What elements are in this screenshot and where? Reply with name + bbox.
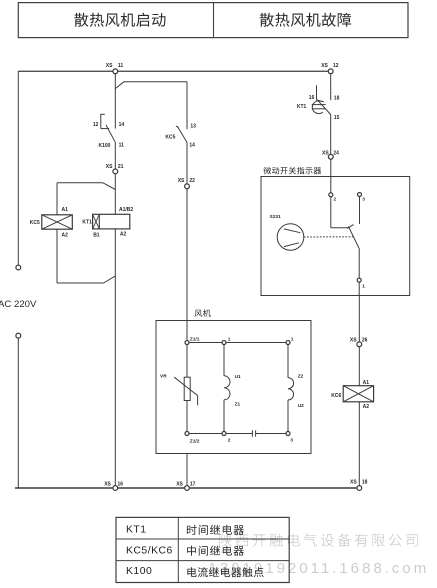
svg-text:2: 2: [334, 196, 337, 202]
mechanical link dashed: [304, 236, 354, 238]
node XS-26: [357, 342, 362, 347]
svg-text:3: 3: [362, 196, 365, 202]
node XS-16: [113, 486, 118, 491]
wire XS21 to KT1 coil: [114, 174, 116, 215]
svg-text:1: 1: [228, 337, 231, 343]
wire XS12 to KT1 contact: [330, 73, 332, 100]
contact KC5 blade: [176, 126, 187, 143]
wire switch horizontal: [331, 227, 348, 229]
svg-text:12: 12: [333, 63, 339, 69]
node XS-17: [185, 486, 190, 491]
wire tap horizontal: [124, 81, 187, 83]
wire XS11 to K100: [114, 73, 116, 129]
svg-text:KT1: KT1: [126, 525, 147, 536]
switch box frame: [261, 177, 410, 296]
wire down to KC5 contact: [186, 82, 188, 129]
fan top rail: [187, 342, 288, 344]
svg-text:11: 11: [118, 63, 124, 69]
terminal 3 circle: [358, 193, 362, 197]
fan node 1b: [286, 341, 290, 345]
wire XS22 to fan box: [186, 188, 188, 320]
svg-text:22: 22: [189, 178, 195, 184]
wire terminal 1 out: [358, 282, 360, 295]
contact KT1 labels: [297, 95, 340, 121]
svg-text:2: 2: [228, 438, 231, 444]
wire XS24 to switch box: [330, 159, 332, 177]
AC 220V label: [0, 299, 37, 310]
wire to terminal 2: [330, 177, 332, 193]
node XS-18: [357, 486, 362, 491]
node XS-16 label: [104, 481, 123, 487]
svg-text:XS: XS: [106, 63, 113, 69]
coil KC5: [42, 215, 73, 229]
svg-text:Z1/1: Z1/1: [190, 337, 200, 343]
wire K100 to XS21: [114, 143, 116, 170]
contact KT1 terminal 16 stub: [317, 85, 324, 102]
wire Z2 to node 3: [287, 400, 289, 432]
svg-text:XS: XS: [178, 178, 185, 184]
svg-text:AC 220V: AC 220V: [0, 299, 37, 310]
svg-text:14: 14: [119, 122, 125, 128]
wire branch diagonal lower: [104, 276, 116, 283]
svg-text:XS: XS: [106, 164, 113, 170]
wire Z1/1 to VR: [186, 345, 188, 378]
legend K100: [126, 566, 152, 577]
fan node 2: [222, 432, 226, 436]
svg-text:13: 13: [190, 124, 196, 130]
contact K100 blade: [106, 125, 116, 143]
node XS-12: [328, 69, 333, 74]
wire switch box to XS26: [358, 296, 360, 343]
svg-text:B1: B1: [93, 232, 100, 238]
wire XS26 to KC6: [358, 346, 360, 385]
node XS-24: [328, 154, 333, 159]
detector S231 chords: [284, 229, 300, 247]
node XS-12 label: [321, 63, 339, 69]
svg-text:21: 21: [118, 164, 124, 170]
svg-text:U2: U2: [298, 403, 304, 409]
watermark phone url: [209, 560, 430, 577]
fan node Z1/1: [185, 341, 189, 345]
wire fan box to XS17: [186, 454, 188, 487]
svg-text:16: 16: [309, 95, 315, 101]
node XS-24 label: [322, 150, 339, 156]
svg-text:K100: K100: [126, 566, 152, 577]
detector S231 label: [270, 214, 282, 220]
varistor VR body: [184, 377, 190, 400]
wire KC6 to XS18: [358, 402, 360, 486]
terminal circle AC L: [16, 265, 21, 270]
winding Z2-U2 labels: [298, 373, 304, 409]
wire blade to terminal 1: [358, 248, 360, 278]
svg-text:KC5/KC6: KC5/KC6: [126, 545, 173, 556]
legend KT1: [126, 525, 147, 536]
svg-text:13919192011.1688.com: 13919192011.1688.com: [209, 560, 430, 577]
svg-text:KC6: KC6: [331, 393, 341, 399]
legend K100 desc 电流继电器触点: [187, 567, 263, 577]
svg-text:XS: XS: [321, 63, 328, 69]
winding U1-Z1: [224, 376, 230, 400]
node XS-21: [113, 169, 118, 174]
wire tap diagonal: [115, 82, 124, 89]
winding U1-Z1 labels: [235, 374, 241, 407]
fan node Z1/2 label: [190, 439, 200, 445]
left rail wire lower: [17, 338, 19, 488]
terminal 1 label: [362, 283, 365, 289]
coil KT1: [93, 214, 130, 229]
title table frame: [18, 3, 408, 38]
left rail wire upper: [17, 71, 19, 265]
svg-text:15: 15: [334, 115, 340, 121]
terminal 3 label: [362, 196, 365, 202]
svg-text:11: 11: [119, 142, 125, 148]
svg-text:3: 3: [290, 438, 293, 444]
svg-text:A1/B2: A1/B2: [119, 207, 133, 213]
svg-text:S231: S231: [270, 214, 282, 220]
svg-text:Z1/2: Z1/2: [190, 439, 200, 445]
svg-text:18: 18: [334, 96, 340, 102]
coil KT1 labels: [82, 207, 133, 238]
capacitor C plates: [252, 430, 255, 436]
svg-text:16: 16: [118, 481, 124, 487]
svg-text:Z2: Z2: [298, 373, 304, 379]
legend KC5/KC6: [126, 545, 173, 556]
svg-text:XS: XS: [176, 481, 183, 487]
contact KT1 blade: [318, 100, 331, 114]
node XS-26 label: [350, 338, 368, 344]
coil KC6: [343, 386, 373, 402]
node XS-17 label: [176, 481, 195, 487]
svg-text:A2: A2: [62, 233, 69, 239]
svg-text:18: 18: [362, 479, 368, 485]
fan node Z1/2: [185, 432, 189, 436]
contact K100 terminal 12 stub: [101, 114, 109, 129]
wire KC5 contact to XS22: [186, 143, 188, 184]
node XS-21 label: [106, 164, 124, 170]
wire 1a to U1: [223, 345, 225, 376]
svg-text:KC5: KC5: [165, 134, 175, 140]
svg-text:24: 24: [333, 150, 339, 156]
terminal 3 stub: [359, 197, 361, 224]
fan node 1b label: [291, 337, 294, 343]
node XS-11: [113, 69, 118, 74]
contact K100 labels: [93, 122, 124, 149]
varistor VR label: [160, 373, 167, 379]
title cell text 散热风机故障: [260, 13, 351, 27]
svg-text:K100: K100: [99, 143, 111, 149]
svg-text:XS: XS: [322, 150, 329, 156]
terminal circle AC N: [16, 333, 21, 338]
svg-text:KC5: KC5: [30, 220, 40, 226]
svg-text:A2: A2: [120, 232, 127, 238]
svg-text:A1: A1: [363, 380, 370, 386]
wire KC5 coil bottom lead: [56, 229, 58, 283]
fan node 3 label: [290, 438, 293, 444]
svg-text:XS: XS: [350, 479, 357, 485]
watermark company name: [219, 533, 417, 546]
wire branch horizontal upper: [57, 182, 103, 184]
bottom bus wire: [15, 487, 359, 489]
fan node 1a label: [228, 337, 231, 343]
svg-text:KT1: KT1: [82, 219, 92, 225]
terminal 2 label: [334, 196, 337, 202]
node XS-18 label: [350, 479, 368, 485]
svg-text:XS: XS: [350, 338, 357, 344]
svg-text:KT1: KT1: [297, 104, 307, 110]
title cell text 散热风机启动: [74, 13, 165, 27]
svg-text:1: 1: [291, 337, 294, 343]
svg-text:U1: U1: [235, 374, 241, 380]
wire terminal 2 down: [330, 197, 332, 228]
fan box frame: [156, 321, 311, 454]
fan bottom rail left: [187, 433, 252, 435]
wire into fan box: [186, 321, 188, 341]
wire KT1 contact to XS24: [330, 115, 332, 155]
svg-text:Z1: Z1: [235, 401, 241, 407]
fan node 2 label: [228, 438, 231, 444]
fan box label 风机: [195, 309, 211, 317]
fan bottom rail right: [256, 433, 288, 435]
winding Z2-U2: [288, 378, 294, 400]
terminal 1 circle: [357, 278, 361, 282]
coil KC5 labels: [30, 207, 68, 239]
svg-text:VR: VR: [160, 373, 167, 379]
svg-text:14: 14: [189, 142, 195, 148]
wire branch horizontal lower: [57, 282, 104, 284]
wire 1b to Z2: [287, 345, 289, 378]
legend table frame: [116, 517, 289, 582]
switch blade S231: [348, 226, 359, 248]
switch box label 微动开关指示器: [263, 167, 321, 174]
wire KC5 coil top lead: [56, 183, 58, 215]
svg-text:26: 26: [362, 338, 368, 344]
contact KC5 labels: [165, 124, 196, 149]
wire VR to Z1/2: [186, 401, 188, 432]
svg-text:12: 12: [93, 122, 99, 128]
svg-text:XS: XS: [104, 481, 111, 487]
wire KT1 coil to XS16: [114, 229, 116, 486]
node XS-11 label: [106, 63, 124, 69]
switch pivot tick: [347, 225, 353, 229]
fan node Z1/1 label: [190, 337, 200, 343]
node XS-22: [185, 184, 190, 189]
svg-text:1: 1: [362, 283, 365, 289]
top bus wire L1: [18, 70, 330, 72]
varistor VR strike: [174, 377, 197, 405]
terminal 2 circle: [329, 193, 333, 197]
fan node 1a: [222, 341, 226, 345]
coil KC6 labels: [331, 380, 369, 410]
detector S231 circle: [277, 224, 304, 251]
wire branch diagonal upper: [103, 183, 115, 190]
svg-text:A1: A1: [62, 207, 69, 213]
svg-text:A2: A2: [363, 404, 370, 410]
legend KC5/KC6 desc 中间继电器: [187, 546, 244, 556]
contact KT1 delay symbol: [312, 101, 326, 114]
legend KT1 desc 时间继电器: [187, 525, 244, 535]
fan node 3: [286, 432, 290, 436]
node XS-22 label: [178, 178, 195, 184]
wire U1 to node 2: [223, 400, 225, 432]
svg-text:17: 17: [190, 481, 196, 487]
